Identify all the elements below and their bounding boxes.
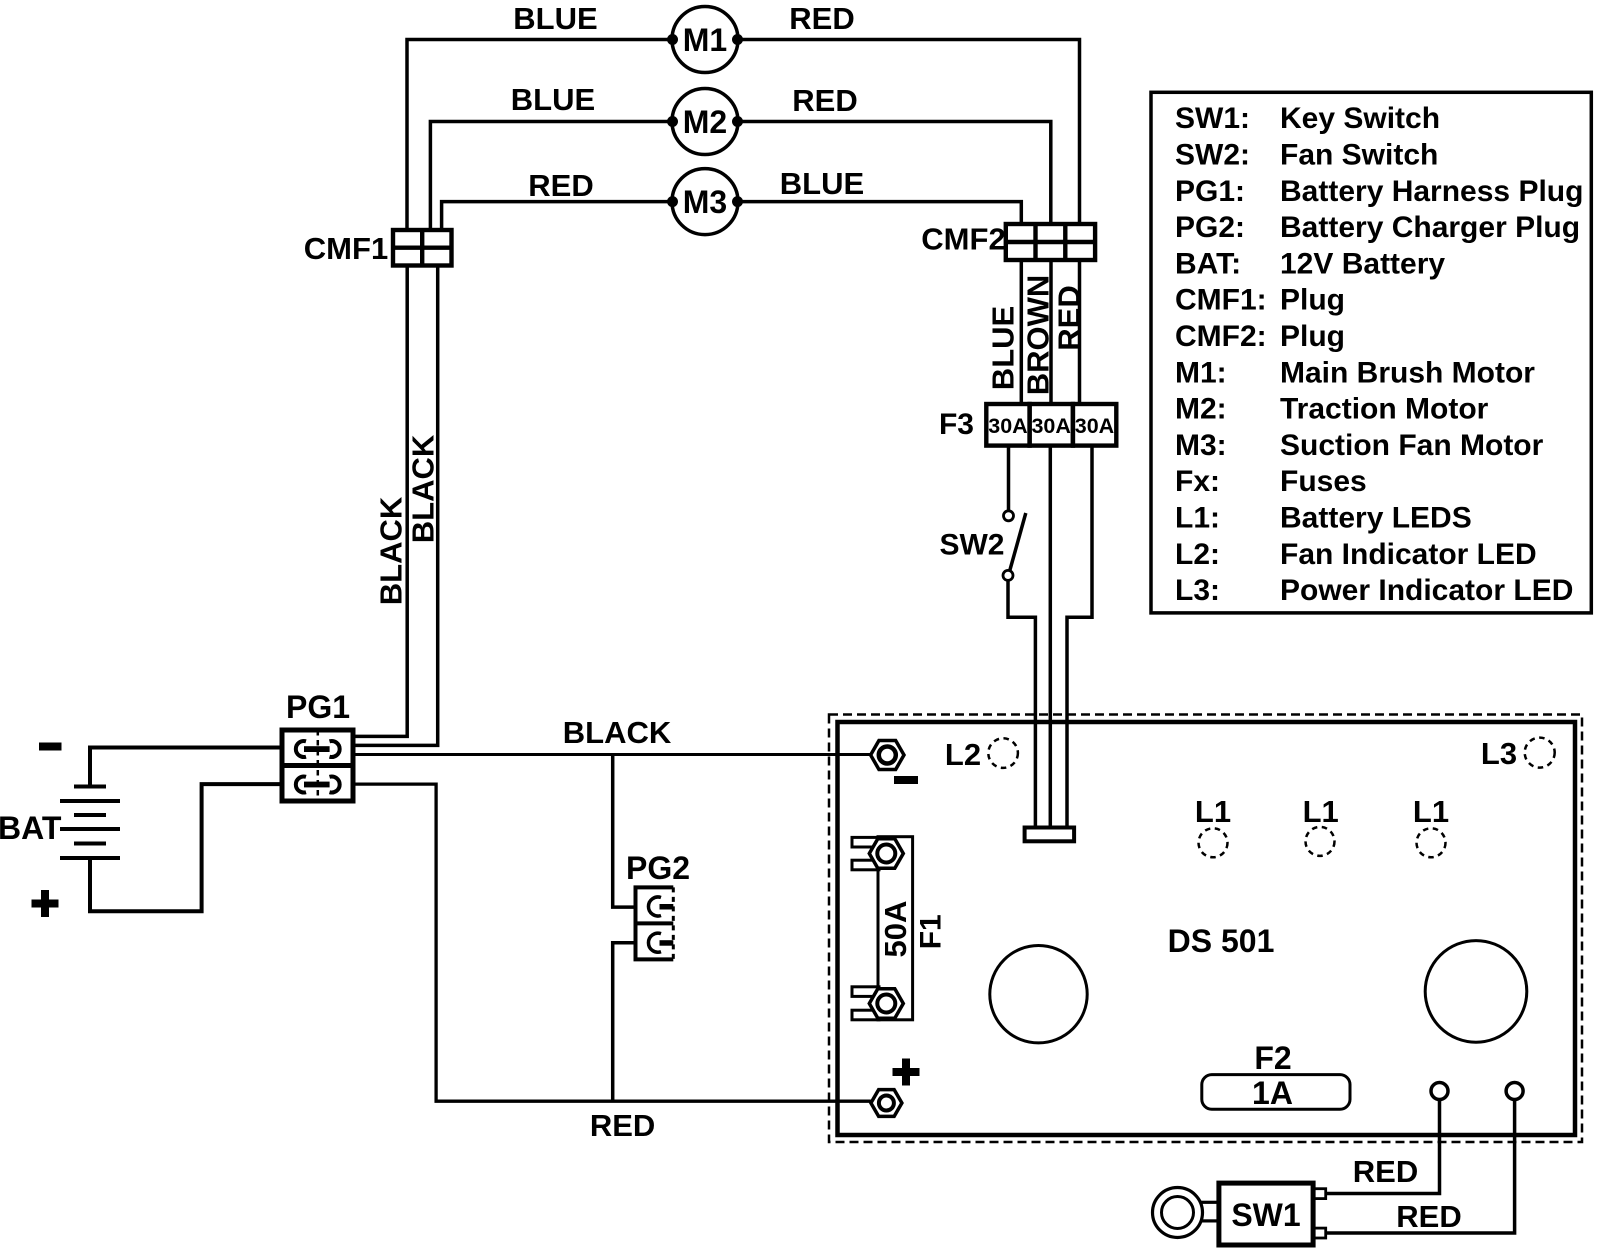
svg-text:PG2: PG2	[626, 850, 690, 886]
svg-text:SW2: SW2	[939, 529, 1004, 562]
svg-text:30A: 30A	[1031, 414, 1070, 438]
svg-text:L1: L1	[1195, 794, 1231, 829]
plug PG2	[636, 887, 674, 959]
svg-text:Fx:: Fx:	[1175, 465, 1220, 498]
battery minus sign	[39, 743, 62, 751]
svg-text:M2: M2	[683, 104, 727, 140]
wire SW2 down to bar	[1008, 580, 1035, 829]
svg-text:RED: RED	[590, 1108, 655, 1143]
connector CMF1	[393, 230, 452, 266]
svg-text:SW2:: SW2:	[1175, 139, 1250, 172]
board DS501 solid border	[838, 722, 1576, 1135]
wire M2 red (right)	[737, 122, 1051, 225]
svg-text:BLUE: BLUE	[986, 306, 1021, 390]
svg-text:Fuses: Fuses	[1280, 465, 1367, 498]
svg-text:L3: L3	[1481, 736, 1517, 771]
svg-text:1A: 1A	[1252, 1075, 1293, 1111]
svg-text:L1: L1	[1303, 794, 1339, 829]
svg-text:BLACK: BLACK	[406, 434, 441, 543]
svg-text:SW1: SW1	[1231, 1197, 1300, 1233]
board minus sign	[894, 776, 918, 784]
svg-text:RED: RED	[1353, 1154, 1418, 1189]
svg-text:SW1:: SW1:	[1175, 102, 1250, 135]
svg-text:PG1:: PG1:	[1175, 175, 1245, 208]
svg-text:CMF2:: CMF2:	[1175, 320, 1267, 353]
svg-text:30A: 30A	[988, 414, 1027, 438]
wire battery minus to PG1	[90, 748, 281, 787]
wire F3 right down to bar	[1067, 446, 1092, 829]
svg-text:BAT: BAT	[0, 810, 62, 846]
svg-text:30A: 30A	[1075, 414, 1114, 438]
board plus sign	[893, 1059, 920, 1086]
board minus terminal hex	[871, 741, 904, 770]
wire RED SW1 top	[1326, 1100, 1440, 1194]
board DS501 dashed border	[829, 715, 1582, 1143]
board connector bar	[1025, 828, 1075, 842]
wire BLACK PG1 to board	[356, 753, 871, 756]
fuse F1	[852, 837, 947, 1020]
battery plus sign	[32, 890, 59, 917]
svg-text:Plug: Plug	[1280, 284, 1345, 317]
svg-text:L2: L2	[945, 737, 981, 772]
wire CMF2 to F3 brown	[1049, 260, 1053, 404]
wire black right (CMF1 to PG1)	[356, 266, 438, 746]
wire F3 middle down to bar	[1049, 446, 1053, 829]
svg-text:RED: RED	[1052, 285, 1087, 350]
svg-text:RED: RED	[792, 83, 857, 118]
wire PG2 bottom down	[613, 943, 636, 1101]
svg-text:Main Brush Motor: Main Brush Motor	[1280, 356, 1535, 389]
svg-text:Fan Switch: Fan Switch	[1280, 139, 1438, 172]
svg-text:F1: F1	[914, 914, 947, 949]
svg-text:M1: M1	[683, 22, 727, 58]
svg-text:RED: RED	[1396, 1199, 1461, 1234]
svg-text:BLACK: BLACK	[563, 715, 672, 750]
svg-text:Key Switch: Key Switch	[1280, 102, 1440, 135]
svg-text:L1: L1	[1413, 794, 1449, 829]
svg-text:12V Battery: 12V Battery	[1280, 247, 1445, 280]
connector CMF2	[1006, 224, 1095, 260]
board hole right	[1425, 941, 1527, 1043]
wire CMF2 to F3 red	[1078, 260, 1082, 404]
svg-text:BLUE: BLUE	[511, 82, 595, 117]
board terminal right	[1506, 1083, 1523, 1100]
svg-text:BAT:: BAT:	[1175, 247, 1241, 280]
svg-text:PG1: PG1	[286, 689, 350, 725]
svg-text:M1:: M1:	[1175, 356, 1227, 389]
svg-text:BLACK: BLACK	[374, 496, 409, 605]
svg-text:Suction Fan Motor: Suction Fan Motor	[1280, 429, 1544, 462]
svg-text:CMF1: CMF1	[304, 231, 388, 266]
wire black left (CMF1 to PG1)	[356, 266, 408, 737]
plug PG1	[282, 730, 353, 801]
svg-text:Battery Charger Plug: Battery Charger Plug	[1280, 211, 1580, 244]
wire F3 to SW2	[1007, 446, 1011, 511]
svg-text:DS 501: DS 501	[1168, 923, 1275, 959]
svg-text:BROWN: BROWN	[1021, 275, 1056, 396]
svg-text:CMF1:: CMF1:	[1175, 284, 1267, 317]
legend box	[1151, 92, 1591, 613]
wire battery plus to PG1	[90, 784, 281, 911]
svg-text:RED: RED	[528, 168, 593, 203]
motor M2	[667, 89, 743, 155]
wire CMF2 to F3 blue	[1020, 260, 1024, 404]
legend text	[1175, 102, 1583, 607]
svg-text:PG2:: PG2:	[1175, 211, 1245, 244]
svg-text:F2: F2	[1254, 1040, 1291, 1076]
svg-text:Traction Motor: Traction Motor	[1280, 393, 1489, 426]
svg-text:F3: F3	[939, 408, 974, 441]
switch SW2	[1003, 511, 1026, 581]
motor M1	[667, 7, 743, 73]
wire M2 blue (left)	[430, 122, 673, 231]
fuse block F3	[986, 404, 1116, 446]
battery BAT	[60, 787, 120, 859]
key switch SW1	[1153, 1183, 1326, 1245]
svg-text:M2:: M2:	[1175, 393, 1227, 426]
wire RED SW1 bottom	[1326, 1100, 1515, 1234]
motor M3	[667, 169, 743, 235]
svg-text:BLUE: BLUE	[780, 166, 864, 201]
svg-text:BLUE: BLUE	[513, 1, 597, 36]
wire M3 blue (right)	[737, 202, 1021, 224]
wire M1 blue (left)	[407, 40, 673, 231]
board hole left	[990, 946, 1087, 1043]
svg-text:RED: RED	[789, 1, 854, 36]
wire to PG2 top	[613, 755, 636, 908]
svg-text:Battery Harness Plug: Battery Harness Plug	[1280, 175, 1583, 208]
svg-text:M3:: M3:	[1175, 429, 1227, 462]
svg-text:L1:: L1:	[1175, 502, 1220, 535]
svg-text:L3:: L3:	[1175, 574, 1220, 607]
board terminal left	[1431, 1083, 1448, 1100]
board plus terminal hex	[871, 1090, 902, 1117]
svg-text:Battery LEDS: Battery LEDS	[1280, 502, 1472, 535]
wire M1 red (right)	[737, 40, 1080, 225]
svg-text:50A: 50A	[878, 901, 913, 958]
svg-text:Plug: Plug	[1280, 320, 1345, 353]
svg-text:Fan Indicator LED: Fan Indicator LED	[1280, 538, 1537, 571]
wire RED PG1 to board plus	[356, 784, 871, 1101]
svg-text:L2:: L2:	[1175, 538, 1220, 571]
svg-text:CMF2: CMF2	[921, 222, 1005, 257]
svg-text:M3: M3	[683, 184, 727, 220]
wire M3 red (left)	[442, 202, 673, 230]
svg-text:Power Indicator LED: Power Indicator LED	[1280, 574, 1573, 607]
